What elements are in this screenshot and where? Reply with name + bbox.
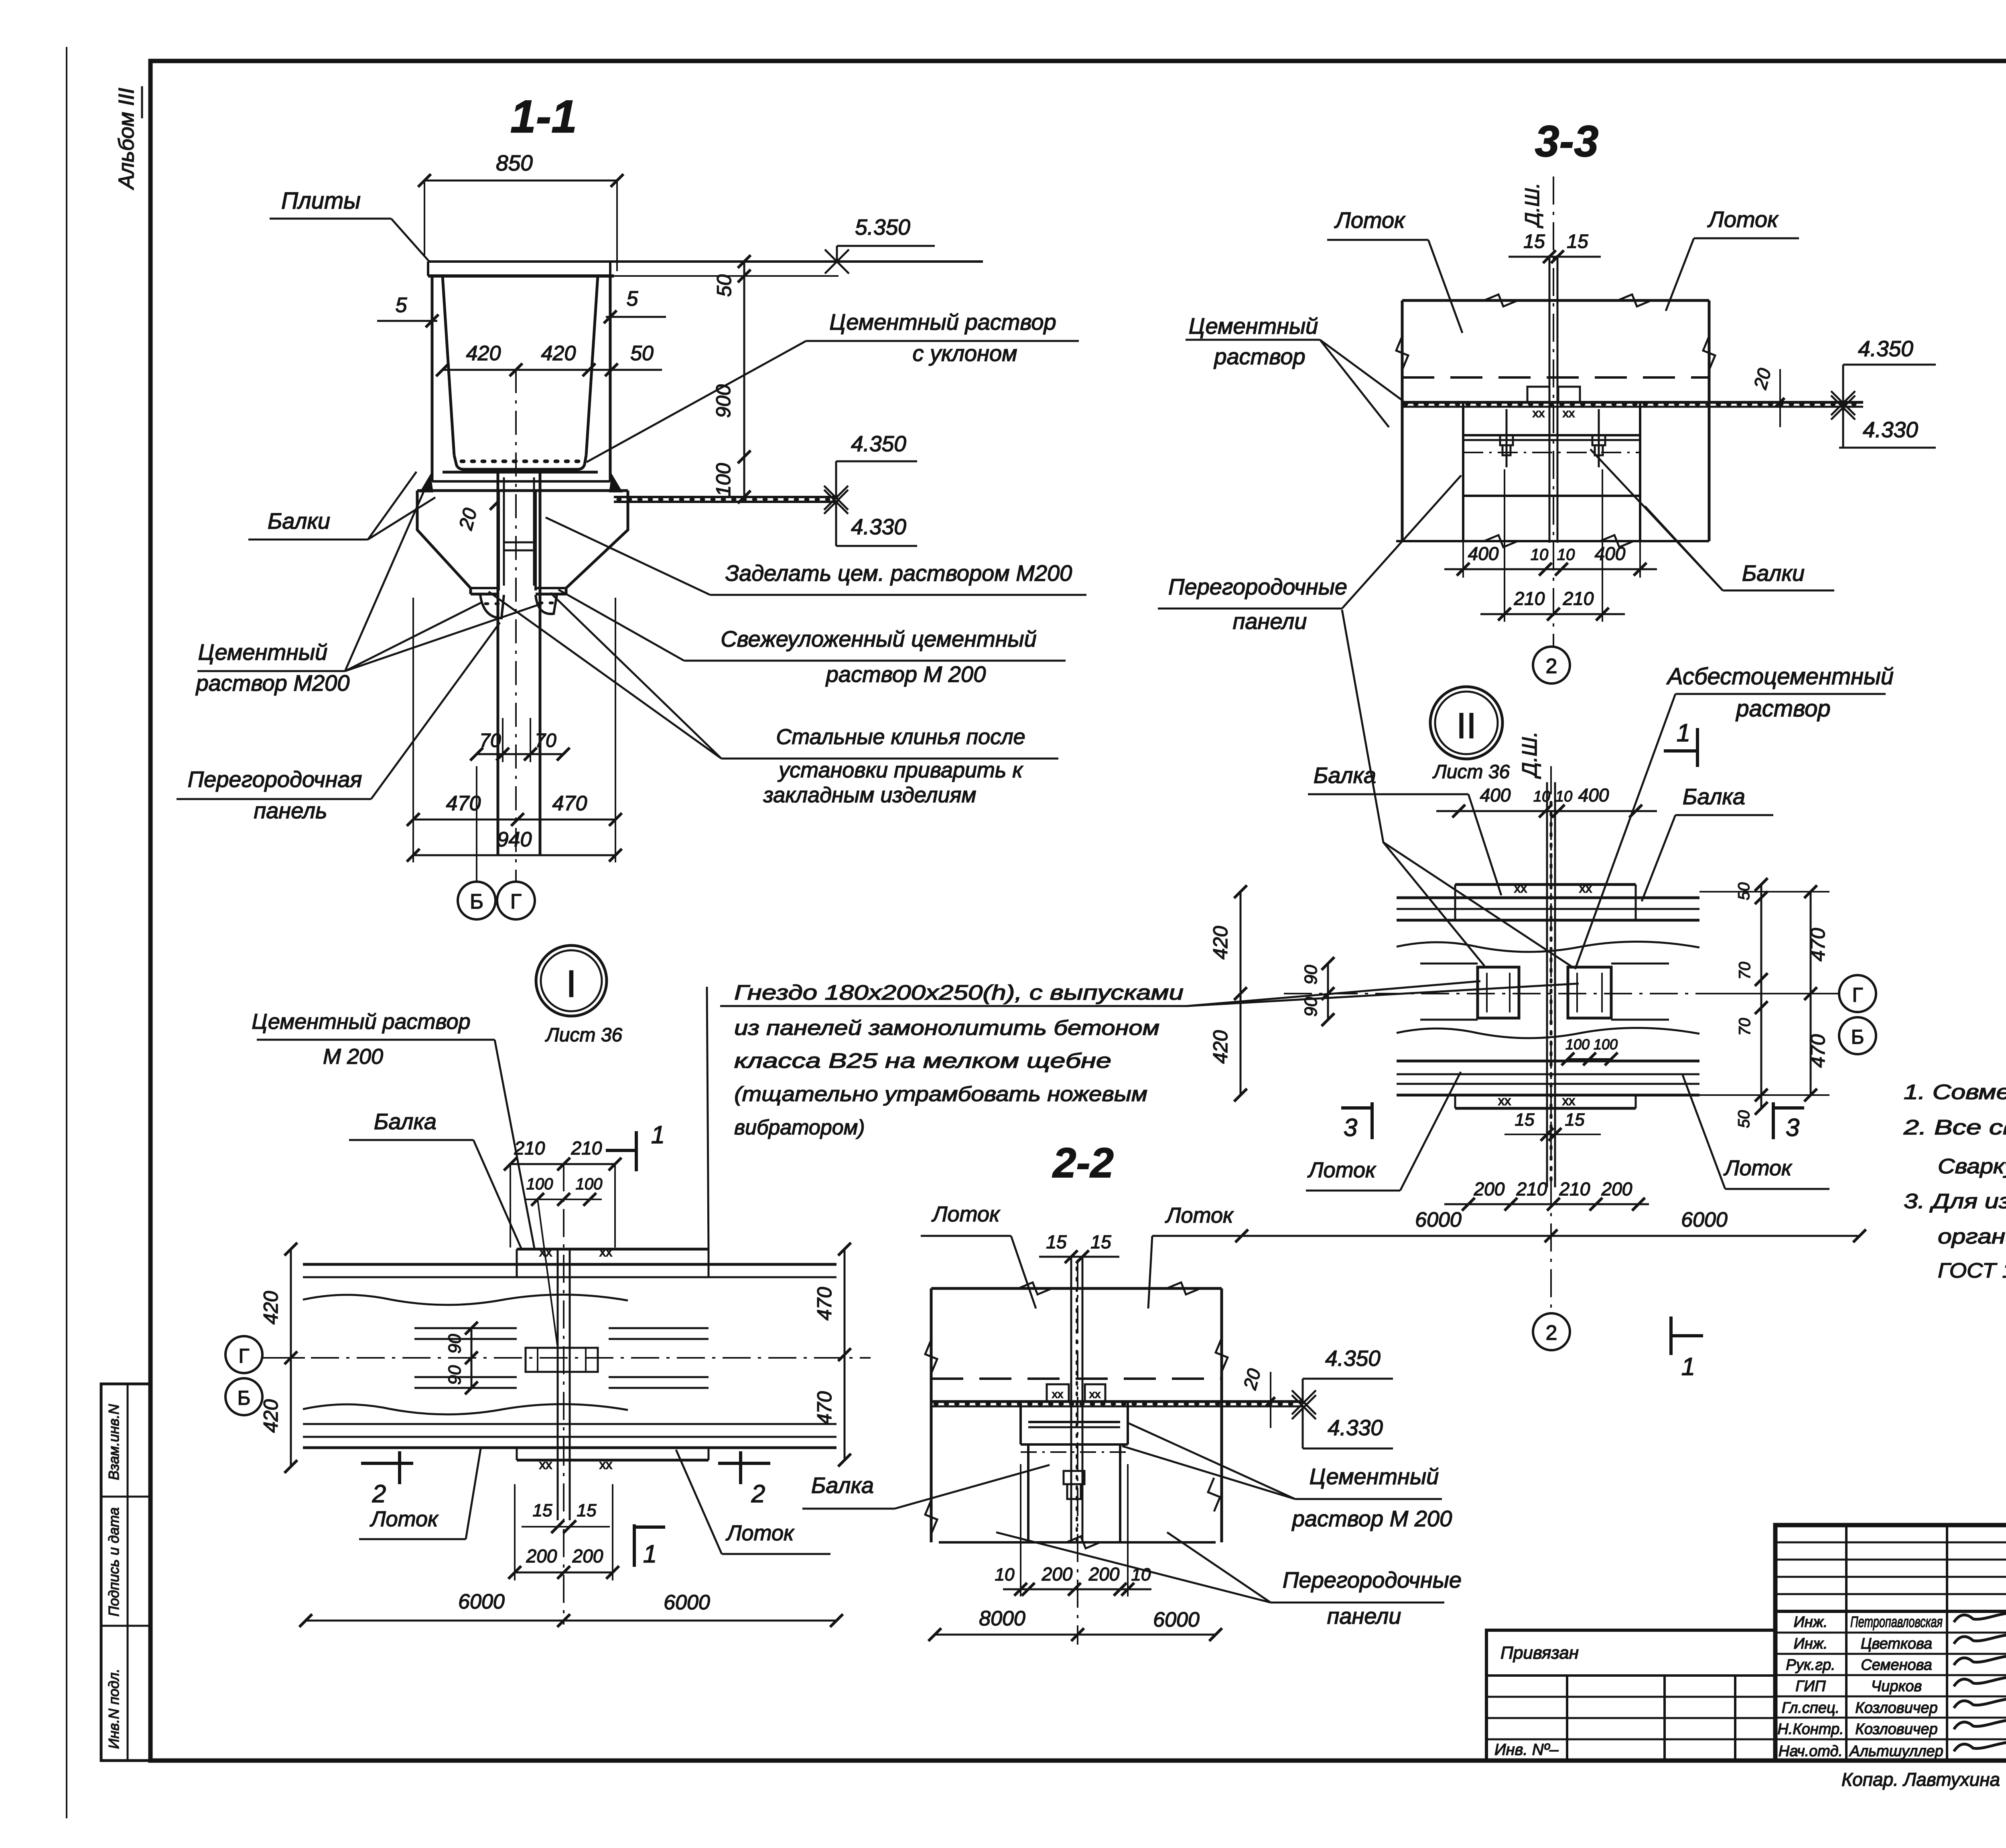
svg-text:15: 15 <box>577 1501 597 1520</box>
dim 420 420 50 <box>436 342 662 376</box>
svg-text:400: 400 <box>1595 543 1626 564</box>
trough base line <box>432 480 610 483</box>
sheet outer binding line left <box>66 47 67 1818</box>
axis circle Б <box>458 766 495 919</box>
svg-text:Инж.: Инж. <box>1794 1635 1828 1652</box>
signatures <box>1954 1613 2006 1751</box>
svg-text:6000: 6000 <box>1153 1608 1200 1631</box>
dashed water line 3-3 <box>1402 376 1709 379</box>
svg-text:ГОСТ 17622-72 *.: ГОСТ 17622-72 *. <box>1938 1259 2006 1282</box>
svg-text:20: 20 <box>455 506 481 533</box>
svg-text:xx: xx <box>1498 1093 1511 1108</box>
svg-text:420: 420 <box>260 1291 282 1325</box>
svg-text:Плиты: Плиты <box>281 188 361 214</box>
view I centerline <box>563 1163 564 1625</box>
svg-text:Инв.N подл.: Инв.N подл. <box>106 1669 122 1749</box>
dim 15 15 view II <box>1504 1110 1601 1141</box>
axis label Д.Ш. view II <box>1518 731 1541 779</box>
svg-text:Сварку вести электродами э-: Сварку вести электродами э-42 ГОСТ 9467-… <box>1938 1155 2006 1178</box>
right vertical dim chain 50-900-100 <box>712 255 751 503</box>
weld marks upper view II <box>1514 881 1592 895</box>
svg-text:М 200: М 200 <box>323 1045 383 1069</box>
dim 210 210 of 3-3 <box>1480 469 1625 622</box>
svg-text:Свежеуложенный цементный: Свежеуложенный цементный <box>721 626 1037 651</box>
svg-text:4.350: 4.350 <box>851 431 906 456</box>
svg-text:3: 3 <box>1344 1114 1357 1142</box>
svg-text:210: 210 <box>1559 1179 1590 1199</box>
svg-text:Б: Б <box>470 890 483 913</box>
label: Асбестоцементный раствор <box>1575 663 1894 969</box>
svg-text:установки приварить к: установки приварить к <box>777 758 1023 782</box>
dim 5 right <box>604 287 666 323</box>
section title 3-3 <box>1535 117 1599 166</box>
svg-text:Гнездо 180х200х250(h), с выпу: Гнездо 180х200х250(h), с выпусками <box>734 981 1184 1004</box>
elevation 4.330 of 2-2 <box>1292 1395 1393 1448</box>
svg-text:Лоток: Лоток <box>1334 207 1406 233</box>
svg-text:850: 850 <box>496 150 533 175</box>
svg-text:Лоток: Лоток <box>932 1202 1001 1226</box>
svg-text:100: 100 <box>1594 1036 1618 1053</box>
panel centerline <box>515 369 517 881</box>
svg-text:раствор: раствор <box>1213 344 1305 369</box>
dim 100 100 view II <box>1561 1036 1618 1065</box>
svg-text:2: 2 <box>372 1480 386 1508</box>
title block upper empty rows <box>1775 1542 2006 1611</box>
view II band upper panel verticals <box>1455 884 1636 920</box>
section marks 3 view II <box>1341 1102 1804 1142</box>
svg-text:Балка: Балка <box>374 1109 437 1134</box>
section mark 1 bottom view I <box>634 1524 665 1568</box>
svg-text:xx: xx <box>1514 881 1527 895</box>
dim 20 rotated <box>455 501 499 533</box>
view I band lower <box>303 1404 837 1460</box>
elevation 4.330 of 3-3 <box>1831 396 1936 448</box>
title block signer rows <box>1775 1633 2006 1739</box>
svg-text:3. Для изготовления водосли: 3. Для изготовления водослива принять <box>1904 1190 2006 1213</box>
weld marks view I <box>539 1245 612 1472</box>
label: Лоток right 2-2 <box>1148 1203 1241 1308</box>
text Лист 36 under II <box>1432 761 1510 783</box>
centerline axis 2 of 3-3 <box>1553 176 1554 646</box>
dim 8000 6000 of 2-2 <box>928 1607 1222 1641</box>
slab top line 3-3 <box>1402 402 1863 407</box>
svg-text:1: 1 <box>1677 719 1690 747</box>
svg-text:400: 400 <box>1468 543 1499 564</box>
dim 470 470 below <box>407 598 622 862</box>
label: Плиты <box>270 188 429 262</box>
svg-text:100: 100 <box>712 463 735 497</box>
panel joint verticals 2-2 <box>1071 1257 1082 1542</box>
bolt detail 2-2 <box>1064 1471 1084 1499</box>
view II band lower <box>1397 1028 1699 1108</box>
svg-text:Инв. Nº–: Инв. Nº– <box>1494 1741 1559 1759</box>
dim 15 15 of 2-2 <box>1039 1231 1119 1263</box>
svg-text:470: 470 <box>813 1287 836 1321</box>
svg-text:90: 90 <box>1301 965 1321 984</box>
svg-text:50: 50 <box>630 342 654 365</box>
svg-text:15: 15 <box>1046 1231 1067 1252</box>
svg-text:Подпись и дата: Подпись и дата <box>106 1507 122 1617</box>
svg-text:Привязан: Привязан <box>1500 1643 1579 1663</box>
svg-text:xx: xx <box>1052 1388 1063 1400</box>
svg-text:200: 200 <box>1601 1179 1632 1199</box>
label: Балка right view II <box>1642 784 1773 901</box>
beam below 2-2 <box>939 1444 1216 1548</box>
vertical sheet label: Альбом III <box>114 86 142 190</box>
dim 200 210 210 200 view II <box>1444 1179 1649 1211</box>
svg-text:420: 420 <box>466 342 501 365</box>
svg-text:210: 210 <box>1516 1179 1547 1199</box>
note 1 <box>1904 1081 2006 1104</box>
svg-text:закладным изделиям: закладным изделиям <box>763 783 977 807</box>
svg-text:Балка: Балка <box>1683 784 1745 809</box>
label: Лоток bottom-right view I <box>676 1450 830 1554</box>
view I band upper <box>303 1249 837 1305</box>
beam sides below 3-3 <box>1396 496 1709 547</box>
label: Балки <box>248 472 435 540</box>
svg-text:Козловичер: Козловичер <box>1855 1700 1937 1716</box>
section 3-3 right edge <box>1703 300 1715 541</box>
concrete fill in trough bottom <box>443 461 598 472</box>
dim 10 200 200 10 of 2-2 <box>995 1464 1151 1596</box>
svg-text:6000: 6000 <box>1681 1208 1728 1231</box>
right dim 470 470 view II <box>1699 885 1829 1101</box>
label: Балка 2-2 <box>802 1465 1050 1509</box>
label: Цементный раствор 3-3 <box>1186 313 1403 427</box>
note 3 line 3 <box>1938 1259 2006 1282</box>
svg-text:15: 15 <box>1565 1110 1585 1130</box>
svg-text:Цементный раствор: Цементный раствор <box>829 309 1056 335</box>
svg-text:470: 470 <box>813 1391 836 1425</box>
svg-text:70: 70 <box>479 730 501 751</box>
svg-text:15: 15 <box>1090 1231 1111 1252</box>
label: Лоток left 3-3 <box>1327 207 1462 333</box>
view II middle horizontal lines <box>1284 964 1829 1020</box>
svg-text:ГИП: ГИП <box>1795 1678 1826 1695</box>
svg-text:210: 210 <box>1563 588 1594 609</box>
label: Лоток right 3-3 <box>1666 207 1799 311</box>
svg-text:20: 20 <box>1239 1366 1265 1392</box>
svg-text:15: 15 <box>533 1501 552 1520</box>
dashed water line 2-2 <box>931 1377 1222 1380</box>
svg-text:2. Все сварные швы h = 6 м: 2. Все сварные швы h = 6 мм. <box>1903 1116 2006 1139</box>
label: Лоток left view II <box>1306 1072 1461 1191</box>
svg-text:470: 470 <box>446 792 481 815</box>
svg-text:1: 1 <box>643 1540 657 1568</box>
axis circles Г Б view I <box>225 1336 305 1415</box>
dim 6000 6000 view II <box>1235 1208 1866 1242</box>
svg-text:210: 210 <box>1514 588 1545 609</box>
svg-text:900: 900 <box>712 384 735 418</box>
view II band upper <box>1397 884 1699 952</box>
svg-text:Б: Б <box>1851 1026 1864 1048</box>
svg-text:Лист 36: Лист 36 <box>545 1024 623 1046</box>
svg-text:100: 100 <box>1565 1036 1590 1053</box>
svg-text:Балки: Балки <box>268 508 330 534</box>
svg-text:раствор М 200: раствор М 200 <box>825 661 986 687</box>
gnezdo leaders to plates <box>1187 981 1579 1006</box>
text Лист 36 under I <box>545 1024 623 1046</box>
floor slab right of trough <box>614 497 838 502</box>
detail circle II <box>1430 687 1502 759</box>
label: Стальные клинья после установки приварить к закладным изделиям <box>489 592 1058 807</box>
view I band mid lines <box>265 1328 871 1388</box>
axis circle 2 of 3-3 <box>1533 647 1570 684</box>
svg-text:8000: 8000 <box>979 1607 1025 1630</box>
svg-text:Лоток: Лоток <box>726 1521 795 1545</box>
svg-text:15: 15 <box>1567 231 1588 252</box>
svg-text:6000: 6000 <box>1415 1208 1462 1231</box>
svg-text:Перегородочные: Перегородочные <box>1168 574 1347 599</box>
label: Лоток right view II <box>1683 1075 1829 1189</box>
svg-text:Козловичер: Козловичер <box>1855 1721 1937 1738</box>
gnezdo bracket line <box>707 987 709 1249</box>
label: Свежеуложенный цементный раствор М200 <box>558 590 1066 687</box>
slab line 2-2 <box>931 1402 1303 1406</box>
svg-text:Балка: Балка <box>811 1473 874 1498</box>
svg-text:4.350: 4.350 <box>1325 1346 1381 1371</box>
dim 5 left <box>377 294 439 327</box>
svg-text:Семенова: Семенова <box>1861 1657 1932 1674</box>
svg-text:Цементный: Цементный <box>198 639 328 665</box>
svg-text:470: 470 <box>1807 1034 1829 1068</box>
svg-text:50: 50 <box>1735 1110 1753 1128</box>
section mark 1 top right of view II <box>1664 719 1697 767</box>
view I joint verticals <box>558 1249 570 1520</box>
section title 2-2 <box>1052 1140 1114 1187</box>
dim 15 15 view I <box>522 1501 610 1533</box>
weld plates 2-2 <box>1047 1384 1105 1402</box>
svg-text:(тщательно утрамбовать ноже: (тщательно утрамбовать ножевым <box>734 1083 1147 1106</box>
centerline axis view II vertical <box>1550 766 1552 1312</box>
svg-text:100: 100 <box>576 1175 603 1193</box>
left table label: Взам.инв.N <box>106 1404 122 1480</box>
svg-text:Г: Г <box>510 890 522 913</box>
left table label: Подпись и дата <box>106 1507 122 1617</box>
detail circle I <box>536 945 607 1016</box>
svg-text:420: 420 <box>541 342 576 365</box>
axis label Д.Ш. <box>1521 183 1543 228</box>
svg-text:Г: Г <box>1852 984 1863 1006</box>
label: Балка view I <box>349 1109 522 1249</box>
section mark 1 bottom view II <box>1671 1317 1703 1381</box>
title block outer box <box>1775 1525 2006 1761</box>
svg-text:200: 200 <box>1042 1564 1073 1584</box>
section 2-2 box edges <box>925 1288 1228 1542</box>
mortar pockets under beam <box>480 595 557 618</box>
title block column lines <box>1846 1525 2006 1761</box>
svg-text:400: 400 <box>1578 785 1609 805</box>
svg-text:Д.Ш.: Д.Ш. <box>1521 183 1543 228</box>
svg-text:1-1: 1-1 <box>510 91 577 142</box>
right dim 470 470 view I <box>813 1243 851 1467</box>
svg-text:Петропавловская: Петропавловская <box>1850 1614 1943 1631</box>
svg-text:210: 210 <box>571 1138 602 1158</box>
svg-text:Асбестоцементный: Асбестоцементный <box>1666 663 1894 690</box>
label: Цементный раствор М200 left <box>195 486 542 696</box>
left dim 420 420 view I <box>260 1243 517 1473</box>
dim 940 <box>407 828 622 862</box>
svg-text:10: 10 <box>1555 788 1572 805</box>
grout step 2-2 <box>1021 1402 1128 1452</box>
svg-text:Взам.инв.N: Взам.инв.N <box>106 1404 122 1480</box>
dim 20 of 2-2 <box>1239 1366 1275 1428</box>
label: Балка left view II <box>1308 763 1501 895</box>
dim 20 of 3-3 <box>1750 366 1785 427</box>
svg-text:панель: панель <box>254 798 327 823</box>
label: Лоток left 2-2 <box>921 1202 1036 1308</box>
svg-text:Стальные клинья после: Стальные клинья после <box>776 725 1025 749</box>
dim 15 15 top of 3-3 <box>1509 231 1601 263</box>
svg-text:5: 5 <box>627 287 639 310</box>
label: Перегородочные панели 3-3 <box>1158 475 1572 967</box>
svg-text:70: 70 <box>535 730 556 751</box>
svg-text:470: 470 <box>1807 928 1829 962</box>
svg-text:6000: 6000 <box>664 1591 710 1614</box>
dim 6000 6000 view I <box>299 1590 843 1627</box>
right dim 50 70 70 50 view II <box>1735 878 1768 1128</box>
dim 210 210 view I top <box>504 1138 621 1248</box>
svg-text:1. Совместно с данным см.: 1. Совместно с данным см. л.л. КЖ-36,40. <box>1904 1081 2006 1104</box>
svg-text:Д.Ш.: Д.Ш. <box>1518 731 1541 779</box>
svg-text:Цветкова: Цветкова <box>1861 1635 1932 1652</box>
label: Лоток bottom-left view I <box>359 1449 481 1539</box>
svg-text:Альтшуллер: Альтшуллер <box>1849 1743 1943 1760</box>
svg-text:xx: xx <box>1089 1388 1100 1400</box>
elevation 4.330 left view <box>824 490 917 546</box>
text: Копар. Лавтухина <box>1842 1769 2000 1790</box>
weld marks lower view II <box>1498 1093 1575 1108</box>
lotok trough walls <box>432 276 610 481</box>
svg-text:15: 15 <box>1515 1110 1535 1130</box>
svg-text:xx: xx <box>1562 1093 1575 1108</box>
svg-text:Цементный: Цементный <box>1189 313 1318 339</box>
svg-text:Цементный: Цементный <box>1310 1464 1439 1489</box>
svg-text:Альбом III: Альбом III <box>114 88 138 190</box>
svg-text:вибратором): вибратором) <box>734 1116 865 1139</box>
svg-text:10: 10 <box>995 1565 1015 1584</box>
svg-text:940: 940 <box>497 828 532 851</box>
label: Цементный раствор с уклоном <box>587 309 1079 462</box>
svg-text:200: 200 <box>526 1546 557 1566</box>
note 3 <box>1904 1190 2006 1213</box>
svg-text:20: 20 <box>1750 366 1775 392</box>
svg-text:6000: 6000 <box>458 1590 505 1613</box>
svg-text:200: 200 <box>572 1546 603 1566</box>
privyazan table <box>1486 1630 1775 1761</box>
label: Цементный раствор М200 view I <box>252 1010 534 1248</box>
svg-text:Лоток: Лоток <box>1707 207 1779 232</box>
svg-text:панели: панели <box>1327 1603 1401 1629</box>
svg-text:4.330: 4.330 <box>851 514 906 539</box>
section 2-2 top line <box>931 1282 1222 1294</box>
note 3 line 2 <box>1938 1225 2006 1248</box>
svg-text:Лоток: Лоток <box>1165 1203 1234 1227</box>
elevation 4.350 left view <box>824 431 917 510</box>
dim 400 10 10 400 view II <box>1436 785 1657 818</box>
svg-text:Гл.спец.: Гл.спец. <box>1782 1700 1840 1716</box>
svg-text:90: 90 <box>445 1365 465 1385</box>
grout step under slab 3-3 <box>1463 402 1640 496</box>
svg-text:3: 3 <box>1786 1114 1799 1142</box>
label: Заделать цем. раствором М200 <box>546 517 1086 595</box>
svg-text:420: 420 <box>1209 926 1232 959</box>
note 2 <box>1903 1116 2006 1139</box>
svg-text:15: 15 <box>1523 231 1545 252</box>
svg-text:Перегородочные: Перегородочные <box>1283 1567 1462 1592</box>
svg-text:Рук.гр.: Рук.гр. <box>1786 1657 1835 1674</box>
elevation 4.350 of 2-2 <box>1292 1346 1393 1414</box>
svg-text:раствор М 200: раствор М 200 <box>1291 1506 1452 1531</box>
view I center plate <box>526 1348 598 1372</box>
left margin table <box>101 1384 150 1761</box>
svg-text:Лоток: Лоток <box>370 1507 439 1531</box>
centerline 2-2 <box>1077 1260 1078 1645</box>
section 3-3 body top line <box>1402 294 1709 306</box>
svg-text:50: 50 <box>713 274 735 297</box>
dim 850 <box>418 150 623 271</box>
svg-text:50: 50 <box>1735 882 1753 901</box>
svg-text:Балка: Балка <box>1314 763 1376 788</box>
section mark 1 top view I <box>606 1121 665 1171</box>
label: Перегородочная панель <box>177 623 500 823</box>
svg-text:с уклоном: с уклоном <box>912 341 1017 366</box>
svg-text:II: II <box>1456 706 1476 746</box>
svg-text:90: 90 <box>445 1334 465 1353</box>
svg-text:Нач.отд.: Нач.отд. <box>1779 1743 1843 1760</box>
svg-text:Чирков: Чирков <box>1871 1678 1922 1695</box>
partition panel below <box>498 472 540 854</box>
svg-text:10: 10 <box>1131 1565 1151 1584</box>
dim 90 90 view II <box>1301 957 1334 1026</box>
section 3-3 left edge <box>1396 300 1408 541</box>
svg-text:Лоток: Лоток <box>1308 1158 1377 1182</box>
svg-text:Перегородочная: Перегородочная <box>188 767 362 792</box>
svg-text:класса В25 на мелком щебне: класса В25 на мелком щебне <box>734 1049 1111 1073</box>
svg-text:470: 470 <box>552 792 587 815</box>
dim 400 10 10 400 of 3-3 <box>1444 497 1657 578</box>
svg-text:xx: xx <box>1579 881 1592 895</box>
svg-text:70: 70 <box>1736 962 1754 980</box>
dim 200 200 view I <box>508 1484 619 1580</box>
svg-text:Н.Контр.: Н.Контр. <box>1777 1721 1844 1738</box>
label: Балки 3-3 <box>1590 449 1834 590</box>
signer labels <box>1777 1614 1943 1760</box>
svg-text:Балки: Балки <box>1742 560 1805 586</box>
svg-text:Г: Г <box>238 1345 249 1367</box>
svg-text:5: 5 <box>396 294 408 317</box>
svg-text:1: 1 <box>1681 1353 1695 1381</box>
svg-text:210: 210 <box>514 1138 545 1158</box>
svg-text:2-2: 2-2 <box>1052 1140 1114 1187</box>
svg-text:из панелей замонолитить б: из панелей замонолитить бетоном <box>734 1016 1159 1040</box>
axis circle Г <box>497 882 535 919</box>
svg-text:xx: xx <box>1533 407 1545 420</box>
left table label: Инв.N подл. <box>106 1669 122 1749</box>
top slab plate <box>428 262 983 276</box>
axis circle 2 bottom view II <box>1533 1313 1570 1350</box>
svg-text:раствор: раствор <box>1735 696 1830 722</box>
weld marks at trough base <box>421 477 621 491</box>
dim 70 70 <box>470 718 570 762</box>
gnezdo note text block <box>720 981 1187 1139</box>
svg-text:4.330: 4.330 <box>1863 417 1918 442</box>
svg-text:Заделать цем. раствором М: Заделать цем. раствором М200 <box>725 560 1072 586</box>
svg-text:400: 400 <box>1480 785 1511 805</box>
svg-text:1: 1 <box>651 1121 665 1149</box>
svg-text:3-3: 3-3 <box>1535 117 1599 166</box>
svg-text:4.330: 4.330 <box>1328 1415 1383 1440</box>
